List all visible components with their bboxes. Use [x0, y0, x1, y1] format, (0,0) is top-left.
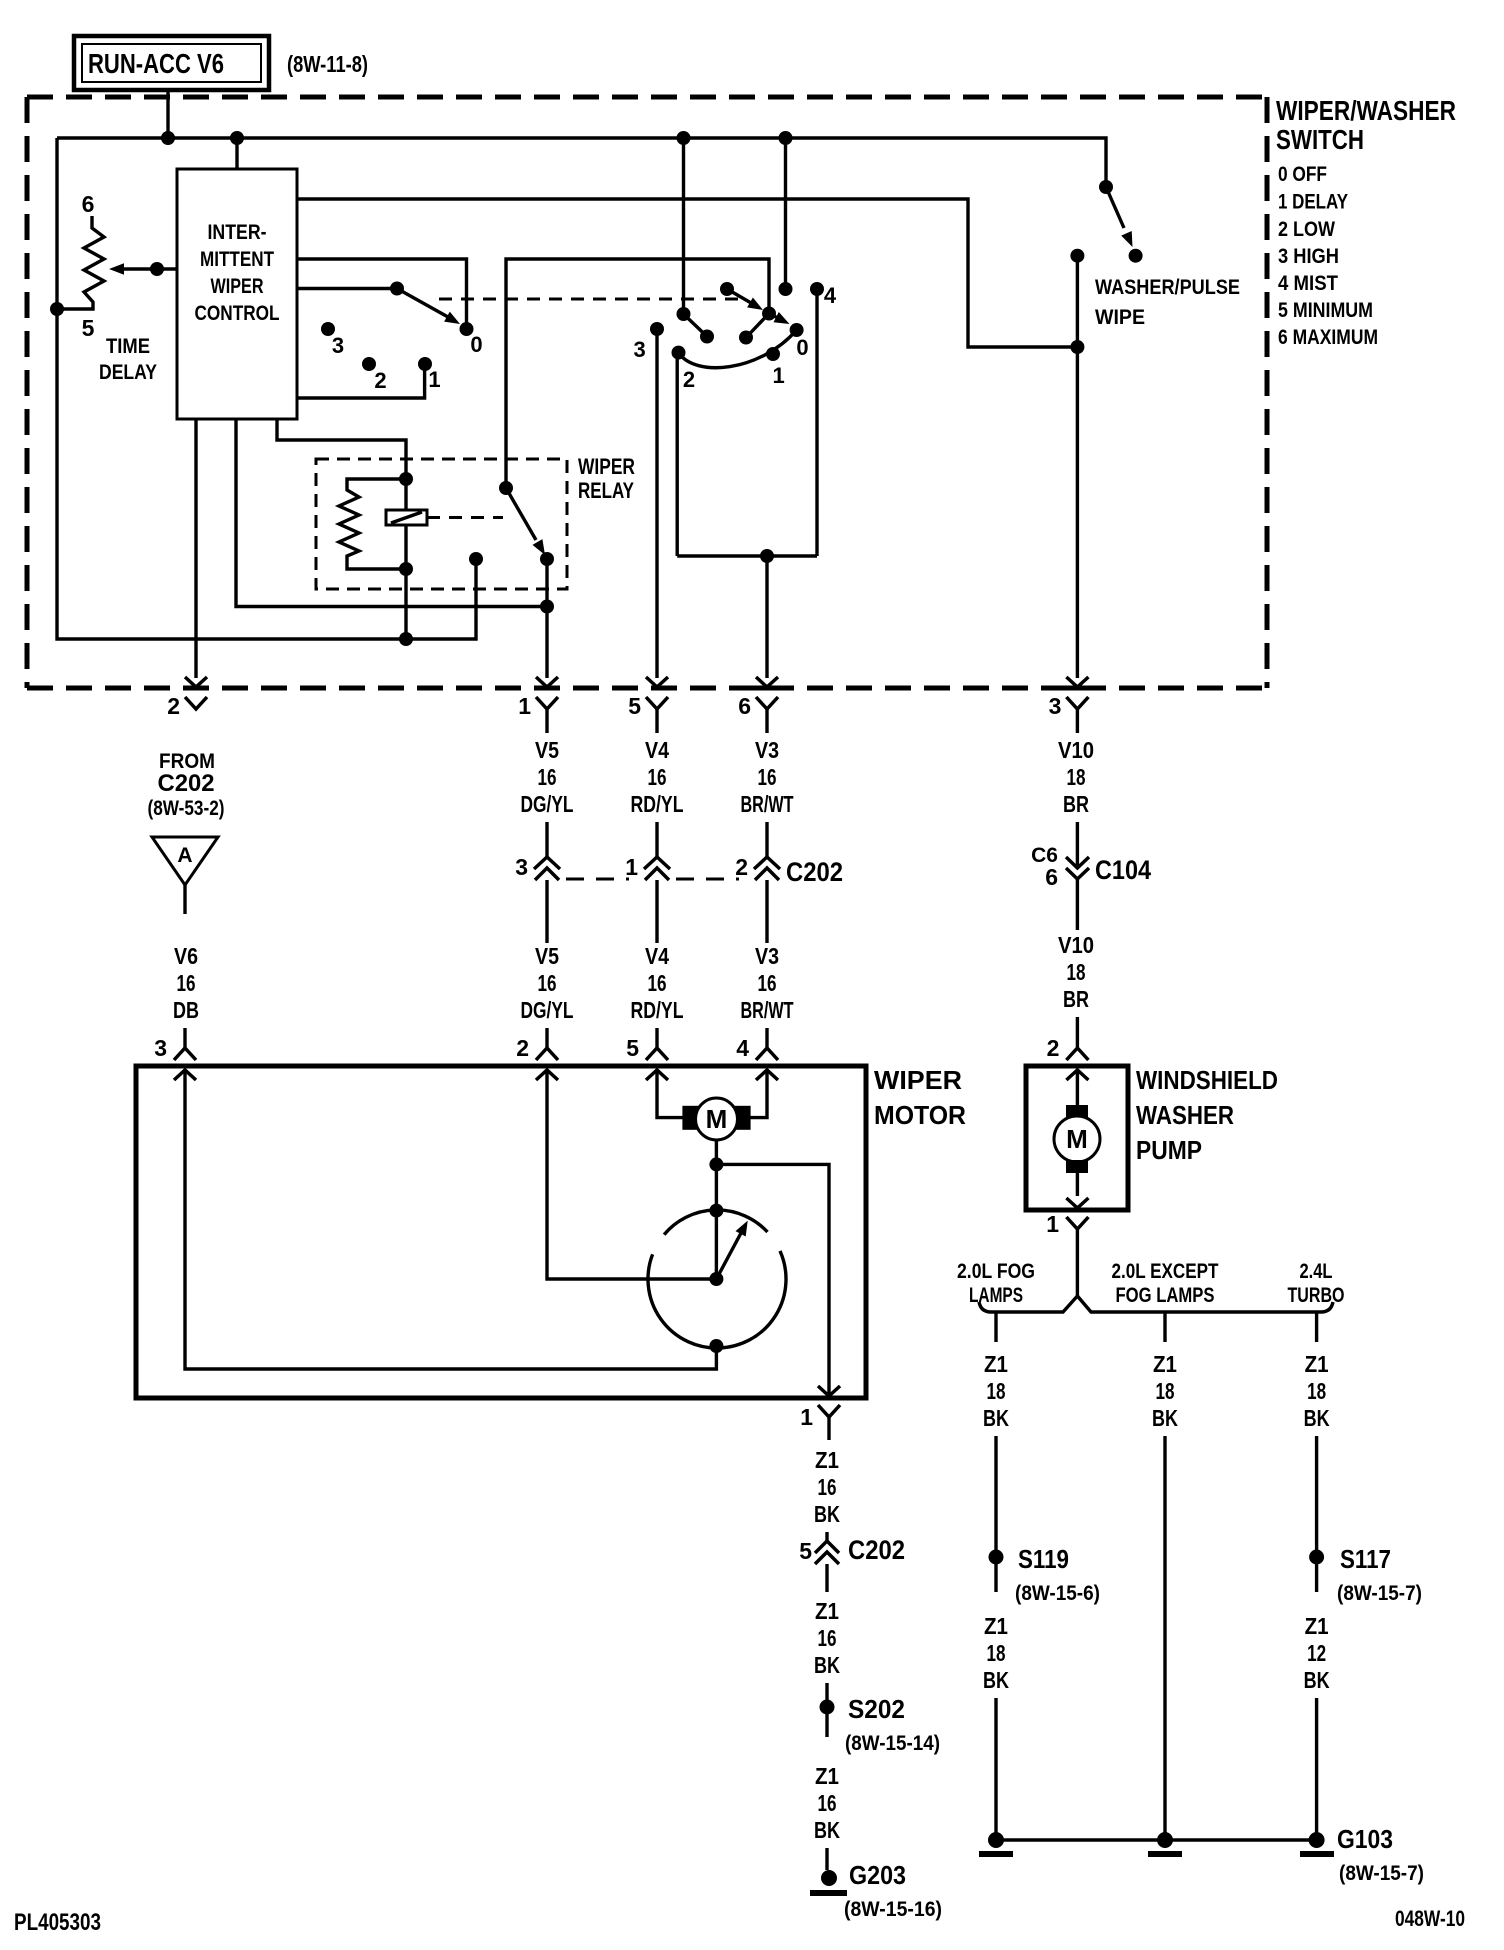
svg-text:2 LOW: 2 LOW: [1278, 218, 1335, 241]
wire V4 to C202: [655, 822, 658, 857]
node washer-junction: [1070, 340, 1084, 354]
svg-text:Z1: Z1: [815, 1598, 839, 1624]
wire relay arm feed: [506, 259, 769, 488]
wire branch stub right: [1315, 1312, 1318, 1342]
motor entry pin 5: [646, 1048, 668, 1060]
svg-text:DELAY: DELAY: [99, 361, 157, 384]
svg-text:1: 1: [518, 693, 531, 719]
wire motor pin2 internal: [547, 1070, 710, 1279]
node relay NC contact: [469, 552, 483, 566]
svg-text:C202: C202: [158, 770, 215, 797]
svg-text:TIME: TIME: [106, 335, 150, 358]
svg-text:(8W-15-7): (8W-15-7): [1337, 1582, 1422, 1605]
wire V3 to motor: [765, 1028, 768, 1048]
node pot-bottom: [50, 302, 64, 316]
svg-text:5 MINIMUM: 5 MINIMUM: [1278, 299, 1373, 322]
svg-text:V10: V10: [1058, 737, 1094, 763]
svg-text:2: 2: [735, 854, 748, 880]
svg-text:16: 16: [648, 764, 667, 790]
motor entry pin 3: [174, 1048, 196, 1060]
svg-text:INTER-: INTER-: [208, 221, 267, 244]
svg-text:2: 2: [1047, 1035, 1060, 1061]
node bus-IWC: [230, 131, 244, 145]
relay linkage dashed: [427, 516, 503, 519]
wire relay coil to node: [404, 525, 407, 639]
svg-text:18: 18: [1156, 1378, 1175, 1404]
svg-text:16: 16: [758, 970, 777, 996]
svg-text:3: 3: [154, 1035, 167, 1061]
svg-text:BK: BK: [814, 1817, 840, 1843]
wire V6 to motor pin3: [183, 1028, 186, 1048]
node SW1 position 1: [418, 357, 432, 371]
svg-text:16: 16: [818, 1790, 837, 1816]
node relay coil top: [399, 472, 413, 486]
node relay arm pivot: [499, 481, 513, 495]
svg-text:5: 5: [626, 1035, 639, 1061]
svg-text:BK: BK: [983, 1667, 1009, 1693]
box U1 intermittent wiper control: [177, 169, 297, 419]
svg-text:16: 16: [818, 1625, 837, 1651]
svg-text:1: 1: [625, 854, 638, 880]
wire join to exit6: [765, 556, 768, 678]
switch arm SW2 lower: [769, 314, 779, 319]
connector C202 dashes: [566, 878, 629, 881]
svg-text:Z1: Z1: [1305, 1351, 1329, 1377]
wire pot wiper: [118, 267, 177, 270]
wire S119 stub: [994, 1564, 997, 1592]
svg-text:G103: G103: [1337, 1824, 1393, 1854]
connector exit pin 2: [185, 677, 207, 687]
svg-text:2: 2: [167, 693, 180, 719]
svg-text:WIPER: WIPER: [874, 1065, 962, 1095]
svg-text:WINDSHIELD: WINDSHIELD: [1136, 1065, 1278, 1095]
svg-text:BR/WT: BR/WT: [741, 791, 794, 817]
connector exit pin 1: [536, 677, 558, 687]
node SW2 contact F: [779, 282, 793, 296]
wire branch stub left: [994, 1312, 997, 1342]
wire branch stub mid: [1163, 1312, 1166, 1342]
wire motor pin4 internal: [750, 1070, 767, 1118]
svg-text:DG/YL: DG/YL: [521, 997, 574, 1023]
svg-text:16: 16: [648, 970, 667, 996]
node SW2 position 2: [672, 346, 686, 360]
node park switch common: [709, 1272, 723, 1286]
connector exit pin 6: [756, 677, 778, 687]
wire bus drop to contact F: [784, 138, 787, 289]
node join 2-4: [760, 549, 774, 563]
svg-text:C202: C202: [848, 1535, 905, 1565]
motor exit pin 1: [818, 1386, 840, 1396]
svg-text:048W-10: 048W-10: [1395, 1906, 1465, 1931]
node motor out junction: [709, 1157, 723, 1171]
svg-text:RUN-ACC V6: RUN-ACC V6: [88, 48, 224, 79]
node SW1 position 3: [321, 322, 335, 336]
node bus-c: [677, 131, 691, 145]
wire S117 stub: [1315, 1564, 1318, 1592]
node SW2 top contact: [720, 282, 734, 296]
pot wiper arrowhead: [109, 263, 124, 275]
node relay NO contact: [540, 552, 554, 566]
svg-text:PUMP: PUMP: [1136, 1135, 1202, 1165]
node bus-left: [161, 131, 175, 145]
svg-text:C104: C104: [1095, 855, 1151, 885]
svg-text:5: 5: [628, 693, 641, 719]
wire middle to ground: [1163, 1436, 1166, 1840]
svg-text:V3: V3: [755, 943, 779, 969]
wire IWC feed: [235, 138, 238, 169]
motor M3 pump armature: [1066, 1105, 1088, 1118]
svg-text:TURBO: TURBO: [1288, 1284, 1345, 1307]
svg-text:V3: V3: [755, 737, 779, 763]
wire position3 to exit5: [655, 329, 658, 678]
svg-text:18: 18: [987, 1378, 1006, 1404]
relay resistor: [339, 479, 406, 569]
node SW1 position 0: [460, 322, 474, 336]
relay K1 dashed boundary: [316, 459, 567, 589]
relay coil K1: [386, 510, 427, 525]
off-page connector A triangle: [152, 837, 218, 885]
svg-text:MOTOR: MOTOR: [874, 1100, 966, 1130]
svg-text:BR: BR: [1063, 791, 1089, 817]
svg-text:Z1: Z1: [984, 1613, 1008, 1639]
wire washer contact to exit3: [1076, 256, 1079, 678]
node SW2 common A: [677, 307, 691, 321]
svg-text:5: 5: [82, 315, 95, 341]
switch arm SW2 upper: [727, 289, 752, 304]
svg-text:WIPER: WIPER: [578, 454, 635, 479]
svg-text:18: 18: [1067, 764, 1086, 790]
svg-text:V4: V4: [645, 943, 669, 969]
wire Z1 to G203: [825, 1848, 828, 1870]
svg-text:6: 6: [82, 191, 95, 217]
node washer contact left: [1070, 249, 1084, 263]
box M1 wiper motor: [136, 1066, 866, 1398]
wire V5 to motor: [545, 1028, 548, 1048]
ground bus wire: [996, 1838, 1317, 1841]
connector C202 pin1: [644, 857, 670, 869]
wire IWC out2 to position0: [297, 259, 467, 329]
node SW2 position 1: [766, 347, 780, 361]
wire V10 to C104: [1076, 822, 1079, 866]
wire Z1 below C202: [825, 1564, 828, 1592]
wire V10 to pump pin2: [1076, 1017, 1079, 1047]
svg-text:V5: V5: [535, 737, 559, 763]
svg-text:2.0L FOG: 2.0L FOG: [957, 1260, 1035, 1283]
wire IWC to relay output node: [236, 419, 547, 607]
node relay-bottom-junction: [399, 632, 413, 646]
ground G103: [1309, 1832, 1325, 1848]
node SW2 position 4: [810, 282, 824, 296]
motor entry pin 4: [756, 1048, 778, 1060]
svg-text:SWITCH: SWITCH: [1276, 124, 1364, 155]
ground G203: [821, 1870, 837, 1886]
wire IWC to pin2 exit: [194, 419, 197, 678]
park switch arm: [716, 1233, 741, 1279]
wire V10 below C104: [1076, 879, 1079, 930]
connector exit pin 5: [646, 677, 668, 687]
svg-text:RD/YL: RD/YL: [631, 997, 684, 1023]
svg-text:3: 3: [515, 854, 528, 880]
node wiper-tap: [150, 262, 164, 276]
node park switch top: [709, 1204, 723, 1218]
svg-text:1: 1: [772, 363, 784, 388]
wire V5 to C202: [545, 822, 548, 857]
jumper E-D: [746, 314, 769, 338]
svg-text:(8W-53-2): (8W-53-2): [148, 797, 225, 820]
svg-text:V6: V6: [174, 943, 198, 969]
svg-text:0: 0: [470, 332, 482, 357]
svg-text:(8W-15-7): (8W-15-7): [1339, 1862, 1424, 1885]
wiper/washer switch dashed boundary: [27, 95, 1267, 100]
wire pump to branch: [1076, 1248, 1079, 1297]
svg-text:(8W-15-14): (8W-15-14): [845, 1732, 940, 1755]
svg-text:BK: BK: [1152, 1405, 1178, 1431]
svg-text:G203: G203: [849, 1860, 906, 1890]
svg-text:2.4L: 2.4L: [1300, 1260, 1333, 1283]
svg-text:DB: DB: [173, 997, 199, 1023]
motor entry pin 2: [536, 1048, 558, 1060]
svg-text:Z1: Z1: [1305, 1613, 1329, 1639]
svg-text:16: 16: [818, 1474, 837, 1500]
svg-text:18: 18: [1307, 1378, 1326, 1404]
svg-text:1: 1: [1046, 1211, 1059, 1237]
svg-text:WASHER/PULSE: WASHER/PULSE: [1095, 276, 1240, 299]
node washer contact right: [1129, 249, 1143, 263]
svg-text:WIPER/WASHER: WIPER/WASHER: [1276, 95, 1456, 126]
svg-text:LAMPS: LAMPS: [969, 1284, 1023, 1307]
svg-text:M: M: [1066, 1124, 1088, 1154]
svg-text:2: 2: [516, 1035, 529, 1061]
wire IWC to relay coil: [277, 419, 406, 510]
svg-text:3: 3: [633, 337, 645, 362]
wire V5 below C202: [545, 880, 548, 943]
wire V3 below C202: [765, 880, 768, 943]
connector C202 pin2: [754, 857, 780, 869]
connector C104: [1066, 857, 1089, 868]
wire pump internal top: [1076, 1070, 1079, 1106]
svg-text:3: 3: [1049, 693, 1062, 719]
svg-text:WIPE: WIPE: [1095, 306, 1145, 329]
svg-text:A: A: [177, 844, 192, 867]
node relay-out-junction: [540, 600, 554, 614]
node SW1 pivot: [390, 282, 404, 296]
svg-text:1: 1: [428, 367, 440, 392]
potentiometer R1 time delay: [57, 216, 104, 309]
wire Z1 to C202-5: [825, 1532, 828, 1541]
svg-text:18: 18: [1067, 959, 1086, 985]
splice S117: [1309, 1550, 1324, 1565]
wire park bottom: [715, 1346, 718, 1352]
wire relay output: [545, 559, 548, 678]
wire bus drop to common A: [682, 138, 685, 314]
relay switch arm: [506, 488, 536, 540]
svg-text:6: 6: [738, 693, 751, 719]
pump entry pin 2: [1066, 1048, 1088, 1060]
wire motor armature down: [715, 1140, 718, 1279]
park switch arc B: [648, 1251, 786, 1348]
wire position2 down: [676, 353, 679, 556]
svg-text:0: 0: [796, 335, 808, 360]
svg-text:18: 18: [987, 1640, 1006, 1666]
node SW2 mid contact: [762, 307, 776, 321]
svg-text:RELAY: RELAY: [578, 478, 634, 503]
node washer arm pivot: [1099, 180, 1113, 194]
switch arm washer/pulse: [1106, 187, 1124, 228]
wire IWC out4 to position1: [297, 364, 425, 398]
svg-text:4: 4: [824, 283, 837, 308]
svg-text:BK: BK: [1304, 1405, 1330, 1431]
wire V3 to C202: [765, 822, 768, 857]
pump exit pin 1: [1066, 1198, 1088, 1208]
wire to S117: [1315, 1436, 1318, 1550]
svg-text:16: 16: [538, 764, 557, 790]
mechanical linkage dashed: [439, 298, 740, 301]
svg-text:Z1: Z1: [984, 1351, 1008, 1377]
node SW2 contact E: [739, 331, 753, 345]
wire IWC out1 to washer contact: [297, 199, 1077, 347]
svg-text:PL405303: PL405303: [14, 1909, 101, 1936]
wire A to label V6: [183, 885, 186, 914]
motor M2 wiper motor armature: [682, 1106, 698, 1130]
svg-text:2: 2: [374, 368, 386, 393]
svg-text:Z1: Z1: [815, 1763, 839, 1789]
wire from RUN-ACC V6 to bus: [166, 90, 169, 138]
node SW1 position 2: [362, 357, 376, 371]
node bus-d: [779, 131, 793, 145]
bus wire B+: [57, 138, 1106, 187]
wire V4 to motor: [655, 1028, 658, 1048]
connector exit pin 3: [1066, 677, 1088, 687]
svg-text:16: 16: [177, 970, 196, 996]
wire join 2-4: [677, 554, 817, 557]
svg-text:S117: S117: [1340, 1544, 1391, 1574]
svg-text:V5: V5: [535, 943, 559, 969]
wire V4 below C202: [655, 880, 658, 943]
wire IWC out3 to wiper arm: [297, 287, 397, 290]
switch arm SW1 delay-sense: [397, 289, 448, 318]
header box RUN-ACC V6: [74, 36, 269, 90]
connector C202 pin3: [534, 857, 560, 869]
svg-text:4: 4: [736, 1035, 749, 1061]
svg-text:0 OFF: 0 OFF: [1278, 163, 1327, 186]
svg-text:S119: S119: [1018, 1544, 1069, 1574]
wire motor junction to pin1: [716, 1164, 829, 1394]
svg-text:6: 6: [1045, 864, 1058, 890]
svg-text:MITTENT: MITTENT: [200, 248, 274, 271]
svg-text:CONTROL: CONTROL: [195, 302, 280, 325]
svg-text:Z1: Z1: [1153, 1351, 1177, 1377]
svg-text:3: 3: [332, 333, 344, 358]
svg-text:FOG LAMPS: FOG LAMPS: [1116, 1284, 1215, 1307]
svg-text:BR: BR: [1063, 986, 1089, 1012]
wire S119 to ground: [994, 1698, 997, 1840]
svg-text:(8W-11-8): (8W-11-8): [287, 51, 368, 77]
svg-text:BK: BK: [1304, 1667, 1330, 1693]
park switch arc A: [664, 1210, 767, 1235]
svg-text:BR/WT: BR/WT: [741, 997, 794, 1023]
wire S117 to ground: [1315, 1698, 1318, 1840]
wire motor pin5 internal: [657, 1070, 683, 1118]
wire pump internal bottom: [1076, 1173, 1079, 1196]
svg-text:V4: V4: [645, 737, 669, 763]
svg-text:16: 16: [538, 970, 557, 996]
splice S119: [989, 1550, 1004, 1565]
svg-text:M: M: [706, 1104, 728, 1134]
svg-text:2.0L EXCEPT: 2.0L EXCEPT: [1112, 1260, 1219, 1283]
svg-text:4 MIST: 4 MIST: [1278, 272, 1338, 295]
node SW2 position 3: [650, 322, 664, 336]
svg-text:BK: BK: [983, 1405, 1009, 1431]
svg-text:3 HIGH: 3 HIGH: [1278, 245, 1339, 268]
box M3 windshield washer pump: [1026, 1066, 1128, 1210]
node park switch bottom: [709, 1339, 723, 1353]
wire motor pin3 internal: [185, 1070, 716, 1369]
jumper A-B: [684, 314, 708, 337]
svg-text:WIPER: WIPER: [211, 275, 264, 298]
svg-text:1 DELAY: 1 DELAY: [1278, 191, 1348, 214]
svg-text:RD/YL: RD/YL: [631, 791, 684, 817]
svg-text:V10: V10: [1058, 932, 1094, 958]
wire S202 stub: [825, 1714, 828, 1737]
svg-text:Z1: Z1: [815, 1447, 839, 1473]
svg-text:S202: S202: [848, 1694, 905, 1724]
wire position4 down: [815, 289, 818, 556]
splice S202: [820, 1700, 835, 1715]
svg-text:WASHER: WASHER: [1136, 1100, 1234, 1130]
connector C202 pin5: [815, 1541, 839, 1553]
svg-text:5: 5: [799, 1538, 812, 1564]
ground node mid: [1157, 1832, 1173, 1848]
svg-text:16: 16: [758, 764, 777, 790]
svg-text:BK: BK: [814, 1501, 840, 1527]
svg-text:BK: BK: [814, 1652, 840, 1678]
svg-text:2: 2: [683, 367, 695, 392]
svg-text:6 MAXIMUM: 6 MAXIMUM: [1278, 326, 1378, 349]
SW2 shorting arc: [679, 330, 797, 368]
svg-text:C202: C202: [786, 857, 843, 887]
ground node left: [988, 1832, 1004, 1848]
wire left loop to relay contact: [57, 138, 476, 639]
svg-text:(8W-15-6): (8W-15-6): [1015, 1582, 1100, 1605]
svg-text:(8W-15-16): (8W-15-16): [844, 1898, 942, 1921]
branch bracket: [979, 1296, 1333, 1312]
node SW2 common B: [700, 330, 714, 344]
svg-text:12: 12: [1307, 1640, 1326, 1666]
svg-text:1: 1: [800, 1404, 813, 1430]
wire to S119: [994, 1436, 997, 1550]
wire Z1 to S202: [825, 1683, 828, 1700]
svg-text:DG/YL: DG/YL: [521, 791, 574, 817]
node SW2 position 0: [790, 323, 804, 337]
node relay coil bottom: [399, 562, 413, 576]
